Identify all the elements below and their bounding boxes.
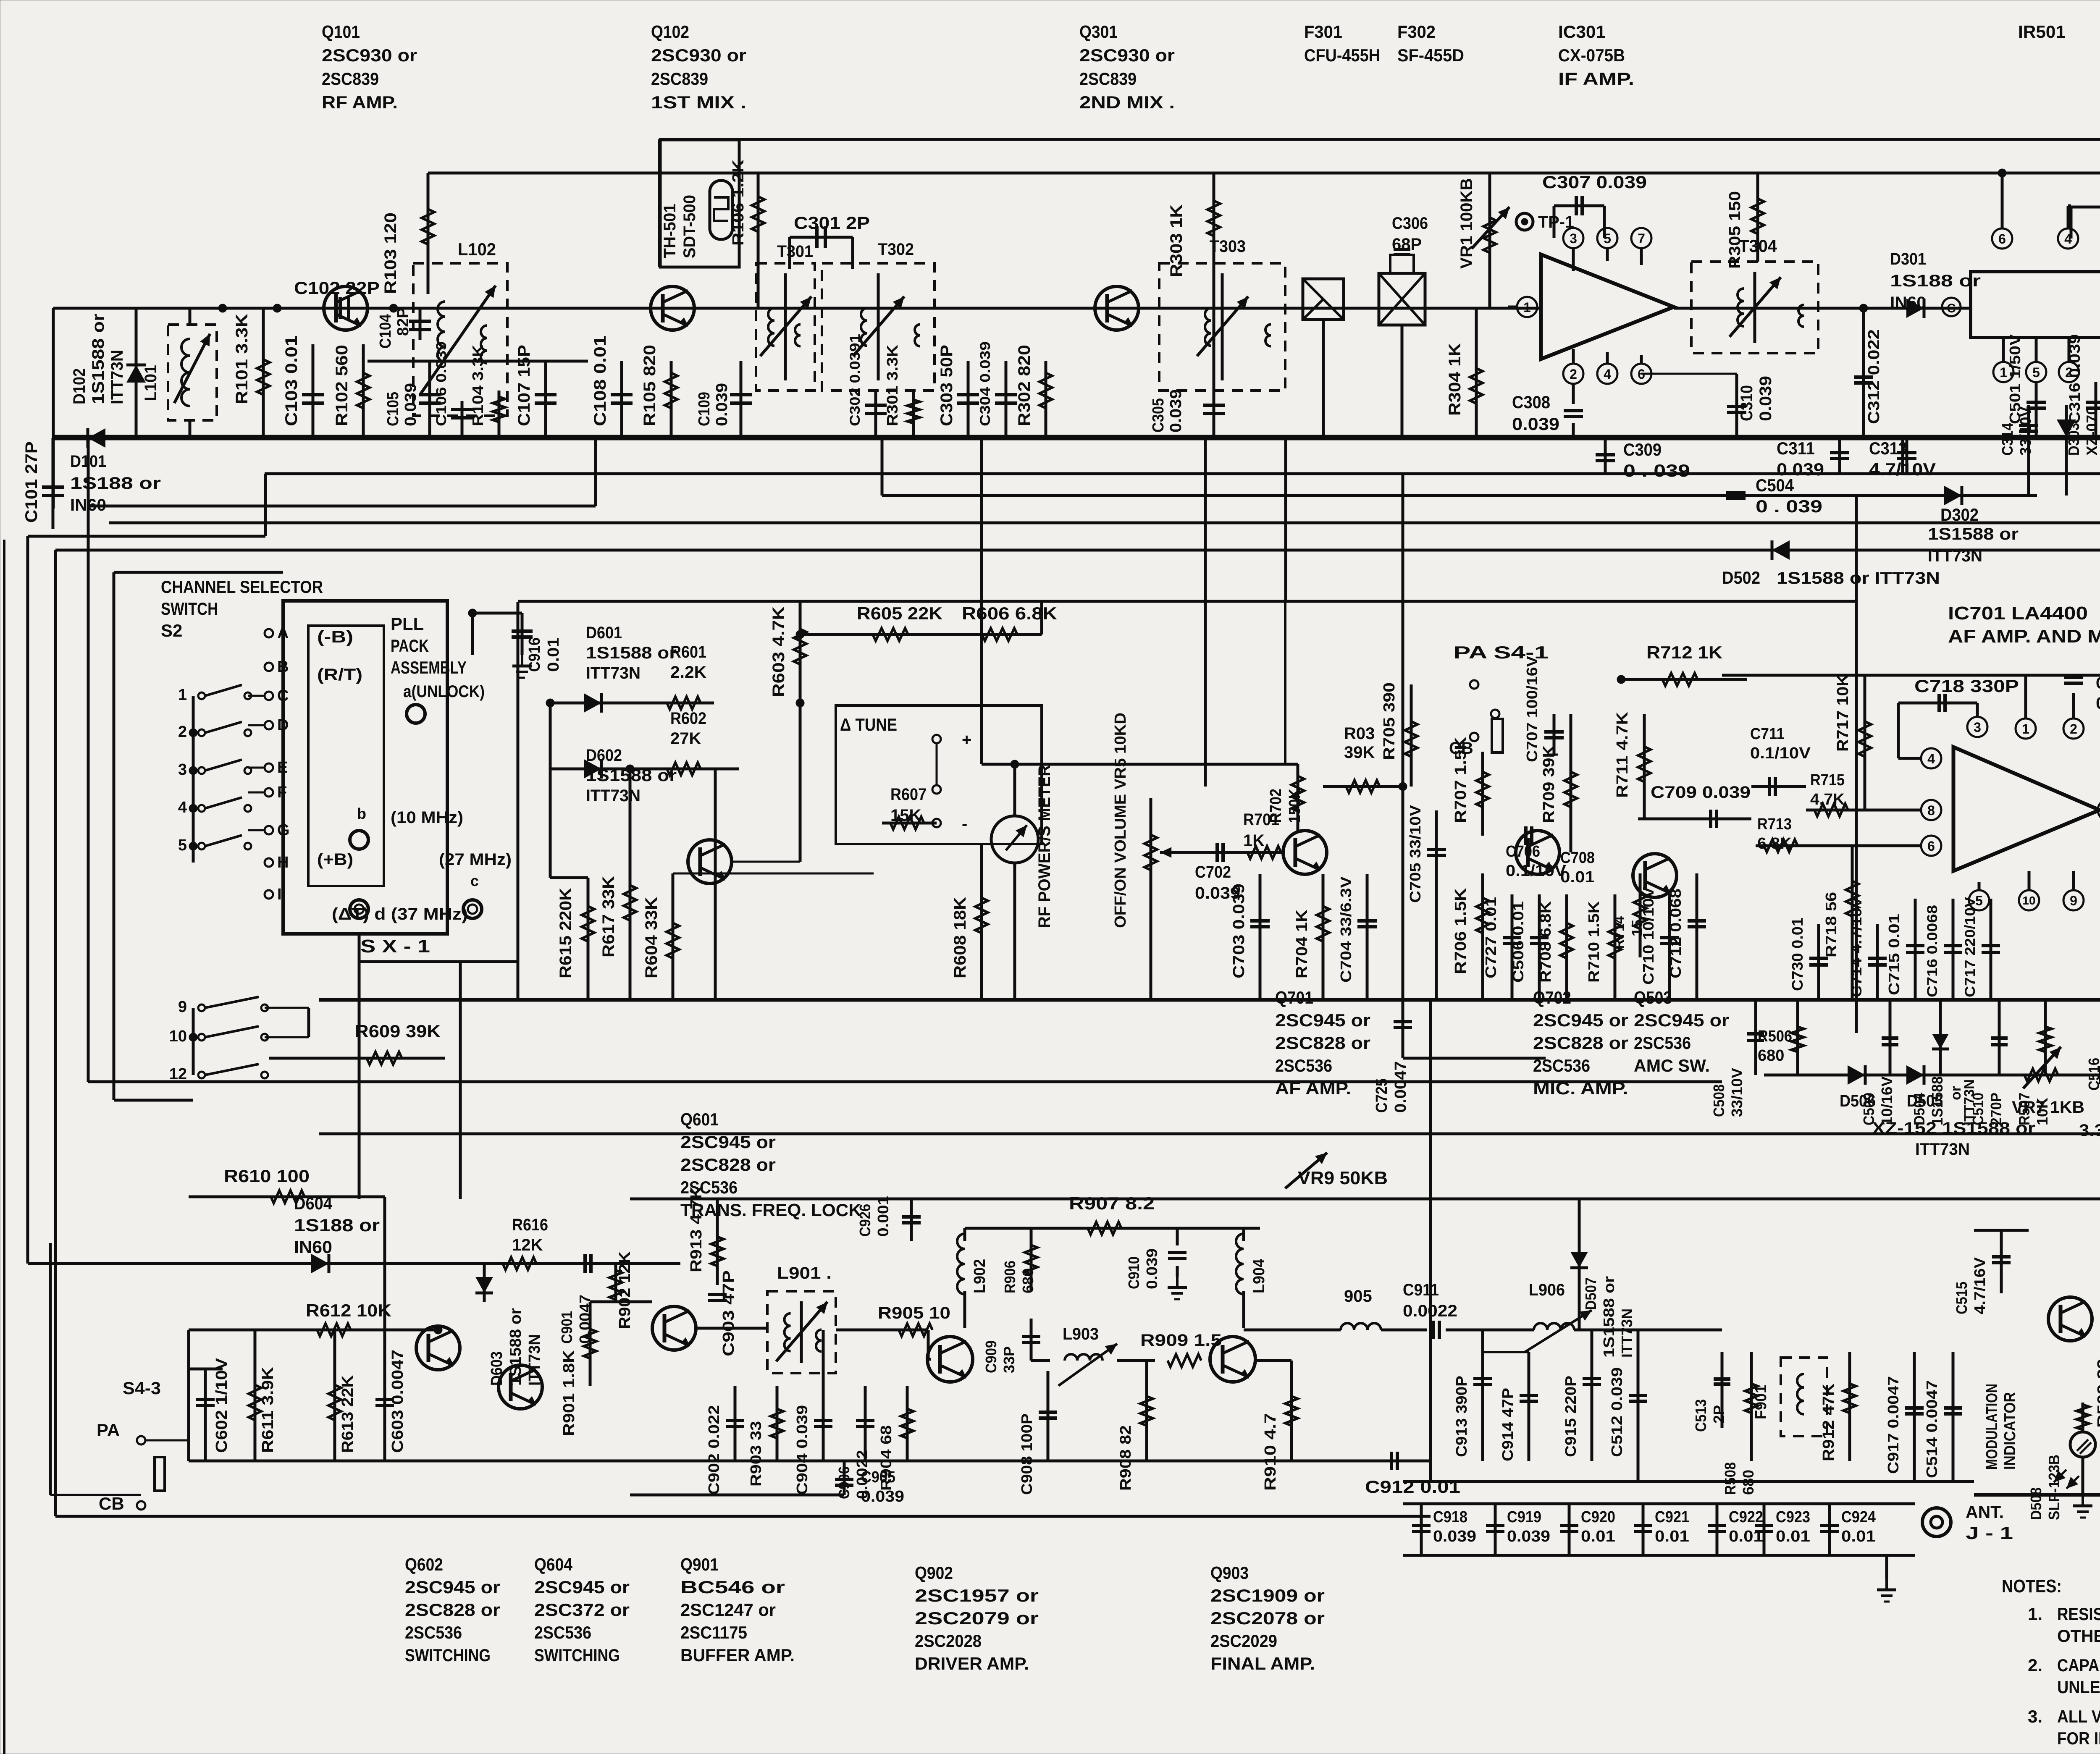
- selector arms: [178, 685, 251, 854]
- svg-text:C104: C104: [377, 314, 394, 349]
- svg-text:4: 4: [178, 799, 187, 816]
- svg-text:C902 0.022: C902 0.022: [705, 1405, 722, 1495]
- svg-text:C905: C905: [861, 1468, 895, 1486]
- resistor R101: [233, 308, 270, 438]
- label unlock: [403, 682, 485, 723]
- svg-text:F301: F301: [1304, 22, 1342, 42]
- svg-text:(+B): (+B): [317, 850, 353, 869]
- label channel selector: [161, 577, 323, 640]
- diode D509: [2099, 1233, 2100, 1314]
- svg-text:FOR IMPROVEMENT WITHOUT NOTICE: FOR IMPROVEMENT WITHOUT NOTICE.: [2057, 1728, 2100, 1748]
- svg-text:D301: D301: [1890, 250, 1926, 268]
- svg-text:PA: PA: [97, 1420, 120, 1440]
- wire mid verticals: [882, 438, 1903, 1481]
- svg-text:4: 4: [1604, 367, 1611, 382]
- capacitor C720: [2098, 717, 2100, 815]
- resistor R303: [1167, 173, 1220, 391]
- svg-text:RESISTANCE VALUES ARE SHOWN IN: RESISTANCE VALUES ARE SHOWN IN OHMS UNLE…: [2057, 1604, 2100, 1624]
- svg-text:R101 3.3K: R101 3.3K: [233, 314, 251, 404]
- wire left edge down: [52, 308, 55, 509]
- capacitor C307: [1542, 172, 1647, 238]
- svg-text:CHANNEL SELECTOR: CHANNEL SELECTOR: [161, 577, 323, 597]
- note 3: [2028, 1707, 2100, 1748]
- svg-text:2SC828 or: 2SC828 or: [1275, 1033, 1370, 1053]
- capacitor C714: [1849, 897, 1887, 1000]
- svg-text:BC546 or: BC546 or: [680, 1577, 785, 1597]
- svg-text:OFF/ON VOLUME VR5 10KD: OFF/ON VOLUME VR5 10KD: [1112, 713, 1129, 928]
- svg-text:T302: T302: [878, 240, 914, 259]
- resistor R615: [550, 878, 594, 1000]
- svg-text:R909 1.5: R909 1.5: [1140, 1331, 1222, 1350]
- wire supply line2: [428, 172, 2100, 175]
- capacitor C515: [1953, 1230, 2029, 1314]
- svg-text:R717 10K: R717 10K: [1834, 674, 1852, 752]
- resistor R509: [2076, 1359, 2100, 1432]
- wire left v1: [28, 474, 265, 1264]
- svg-text:0.01: 0.01: [1841, 1528, 1876, 1545]
- diode D506: [1840, 1065, 1876, 1110]
- svg-text:2: 2: [178, 723, 187, 741]
- resistor R103: [381, 209, 434, 294]
- svg-text:2SC536: 2SC536: [1275, 1056, 1332, 1075]
- svg-text:L904: L904: [1250, 1259, 1268, 1293]
- svg-text:C509: C509: [1860, 1093, 1877, 1125]
- svg-text:R302 820: R302 820: [1015, 345, 1034, 426]
- pin 1 ic701: [2016, 675, 2036, 739]
- svg-text:C709 0.039: C709 0.039: [1651, 783, 1751, 802]
- diode D101: [70, 428, 161, 514]
- svg-text:R707 1.5K: R707 1.5K: [1452, 737, 1470, 823]
- svg-text:82P: 82P: [394, 307, 412, 336]
- label Q701 block: [1275, 988, 1370, 1098]
- svg-text:D303: D303: [2065, 423, 2082, 456]
- resistor R607: [882, 785, 937, 829]
- wire C912 row: [1403, 1480, 1974, 1483]
- svg-text:R602: R602: [670, 709, 706, 728]
- transformer T303: [1159, 237, 1285, 391]
- svg-text:T301: T301: [777, 242, 813, 261]
- svg-text:R702: R702: [1267, 789, 1285, 823]
- svg-text:C303 50P: C303 50P: [937, 345, 956, 426]
- label Q902 block: [915, 1563, 1039, 1673]
- svg-text:1S1588 or: 1S1588 or: [1928, 525, 2019, 543]
- svg-text:C710 10/10V: C710 10/10V: [1640, 887, 1657, 985]
- capacitor C719: [2064, 674, 2100, 713]
- resistor R901: [560, 1302, 652, 1436]
- svg-text:C924: C924: [1841, 1508, 1876, 1526]
- svg-text:R613 22K: R613 22K: [339, 1375, 357, 1453]
- diode D504: [1911, 1000, 1949, 1125]
- svg-text:0.039: 0.039: [713, 383, 731, 426]
- svg-text:4: 4: [1927, 751, 1935, 766]
- svg-text:R509 82: R509 82: [2095, 1359, 2100, 1428]
- capacitor C702: [1195, 843, 1243, 902]
- label 10MHz: [350, 805, 463, 849]
- svg-text:L101: L101: [142, 365, 160, 401]
- svg-text:C301 2P: C301 2P: [794, 213, 870, 233]
- svg-text:2SC536: 2SC536: [534, 1623, 591, 1642]
- transistor Q301 (2nd mix): [1095, 286, 1139, 330]
- wire q601 area: [732, 703, 800, 862]
- svg-text:C309: C309: [1623, 440, 1662, 459]
- op-amp IC301 triangle: [1508, 254, 1674, 359]
- svg-text:BUFFER AMP.: BUFFER AMP.: [680, 1645, 795, 1665]
- svg-text:C903 47P: C903 47P: [720, 1270, 738, 1356]
- resistor R301: [884, 345, 920, 438]
- capacitor C705: [1407, 805, 1446, 1000]
- svg-text:L903: L903: [1063, 1325, 1099, 1343]
- capacitor C304: [977, 341, 1017, 438]
- wire line 1211: [88, 438, 596, 506]
- wire tx r610: [189, 1197, 385, 1330]
- svg-text:2SC945 or: 2SC945 or: [405, 1577, 500, 1597]
- wire bottom edge: [55, 1515, 1431, 1518]
- capacitor C909: [982, 1319, 1040, 1373]
- svg-text:C904 0.039: C904 0.039: [793, 1405, 811, 1495]
- svg-text:TH-501: TH-501: [661, 204, 679, 258]
- svg-text:IN60: IN60: [294, 1237, 332, 1257]
- svg-text:5: 5: [1604, 231, 1611, 246]
- pin 2 det: [2059, 338, 2079, 382]
- svg-text:(10 MHz): (10 MHz): [391, 808, 463, 827]
- capacitor C502: [2071, 175, 2100, 265]
- capacitor C302: [847, 334, 887, 438]
- resistor R612: [189, 1300, 438, 1461]
- resistor R713: [1756, 815, 1898, 852]
- resistor R905: [878, 1304, 950, 1336]
- resistor R708: [1537, 894, 1573, 1000]
- svg-text:R607: R607: [890, 785, 927, 804]
- svg-text:2ND MIX .: 2ND MIX .: [1079, 92, 1175, 112]
- pin 5: [1597, 228, 1617, 261]
- capacitor C105: [384, 361, 441, 438]
- inductor L903: [1031, 1325, 1155, 1386]
- wire left v2: [54, 550, 57, 1516]
- svg-text:VR9 50KB: VR9 50KB: [1298, 1168, 1388, 1188]
- label D604: [294, 1193, 380, 1257]
- capacitor C730: [1789, 918, 1828, 1000]
- capacitor C725: [1373, 1000, 1546, 1113]
- capacitor C715: [1885, 899, 1924, 1000]
- potentiometer VR1: [1457, 173, 1509, 308]
- capacitor C506: [1509, 894, 1549, 1000]
- capacitor C706: [1506, 826, 1567, 880]
- svg-text:IN60: IN60: [1890, 294, 1926, 312]
- svg-text:10/16V: 10/16V: [1878, 1076, 1895, 1125]
- capacitor C602: [189, 1358, 231, 1461]
- svg-text:R610 100: R610 100: [224, 1166, 310, 1186]
- pin 6 det: [1992, 169, 2012, 249]
- capacitor C913: [1453, 1330, 1492, 1461]
- svg-text:0.039: 0.039: [1167, 389, 1185, 433]
- capacitor C509: [1860, 1000, 1898, 1125]
- diode D604: [311, 1254, 329, 1273]
- svg-text:C908 100P: C908 100P: [1018, 1413, 1035, 1495]
- svg-text:C718 330P: C718 330P: [1914, 676, 2019, 696]
- capacitor C704: [1337, 874, 1377, 1000]
- svg-text:B: B: [277, 658, 289, 676]
- label RF POWER/S METER: [1035, 765, 1054, 928]
- potentiometer VR9: [1285, 1153, 1388, 1188]
- scan edge line: [3, 540, 5, 1754]
- wire pll verticals: [359, 602, 518, 1199]
- resistor R909: [1140, 1331, 1222, 1367]
- svg-text:L901 .: L901 .: [777, 1264, 832, 1282]
- transistor Q701 (AF amp): [1283, 831, 1327, 874]
- svg-text:Q901: Q901: [680, 1555, 719, 1574]
- svg-text:0.0022: 0.0022: [1403, 1302, 1457, 1320]
- svg-text:C105: C105: [384, 392, 402, 426]
- svg-text:ITT73N: ITT73N: [1915, 1140, 1970, 1159]
- pin 4: [1597, 352, 1617, 384]
- resistor R707: [1452, 737, 1489, 836]
- capacitor C922: [1708, 1504, 1763, 1555]
- label Q702 block: [1533, 988, 1628, 1098]
- meter M1: [991, 764, 1038, 1000]
- transistor Q503 (AMC sw): [1633, 854, 1677, 897]
- transistor Q602 (switching): [416, 1326, 460, 1370]
- svg-text:2.2K: 2.2K: [670, 663, 706, 682]
- capacitor C709: [1638, 783, 1751, 828]
- svg-text:C719: C719: [2096, 674, 2100, 692]
- svg-text:L102: L102: [458, 239, 496, 259]
- svg-text:C506 0.01: C506 0.01: [1509, 901, 1527, 983]
- svg-text:Q701: Q701: [1275, 988, 1313, 1007]
- capacitor C516: [2085, 1025, 2100, 1091]
- svg-text:2: 2: [1570, 367, 1577, 382]
- svg-text:C603 0.0047: C603 0.0047: [389, 1350, 407, 1453]
- svg-text:0.01: 0.01: [1655, 1528, 1689, 1545]
- potentiometer VR5: [1144, 798, 1205, 1000]
- resistor R613: [328, 1330, 357, 1461]
- label SX-1: [360, 936, 430, 957]
- svg-text:R912 47K: R912 47K: [1820, 1383, 1837, 1461]
- svg-text:R303 1K: R303 1K: [1167, 205, 1186, 277]
- svg-text:C725: C725: [1373, 1078, 1391, 1113]
- svg-text:150K: 150K: [1286, 788, 1304, 823]
- svg-text:4.7/16V: 4.7/16V: [1971, 1257, 1988, 1314]
- pin 3 ic701: [1967, 703, 1987, 737]
- svg-text:2SC839: 2SC839: [651, 69, 708, 89]
- wire vr9 bus: [630, 1198, 2100, 1201]
- wire mid bus: [319, 998, 2100, 1002]
- diode D505: [1906, 1065, 1943, 1110]
- svg-text:0.039: 0.039: [402, 383, 420, 426]
- svg-text:C706: C706: [1506, 843, 1540, 860]
- svg-text:2SC945 or: 2SC945 or: [1533, 1010, 1628, 1030]
- svg-text:10K: 10K: [2034, 1098, 2051, 1125]
- capacitor C501: [2006, 334, 2046, 438]
- svg-text:C919: C919: [1507, 1508, 1541, 1526]
- antenna jack J-1: [1877, 1502, 2013, 1602]
- capacitor C710: [1640, 887, 1679, 1000]
- tune contacts: [932, 731, 971, 833]
- svg-text:1: 1: [1523, 300, 1531, 315]
- svg-text:Q604: Q604: [534, 1555, 573, 1574]
- label PLL: [391, 614, 467, 677]
- svg-text:C306: C306: [1392, 214, 1428, 233]
- svg-text:NOTES:: NOTES:: [2002, 1576, 2062, 1597]
- selector group2: [169, 997, 268, 1083]
- switch S4-3: [97, 1378, 165, 1513]
- svg-text:2SC536: 2SC536: [405, 1623, 462, 1642]
- svg-text:C915 220P: C915 220P: [1562, 1376, 1579, 1457]
- resistor R608: [951, 844, 988, 1000]
- svg-text:L902: L902: [971, 1259, 989, 1293]
- svg-text:1S188 or: 1S188 or: [1890, 272, 1981, 290]
- potentiometer VR7: [2012, 1047, 2084, 1117]
- capacitor C711: [1750, 725, 1811, 796]
- svg-text:IN60: IN60: [70, 496, 106, 514]
- svg-text:C912 0.01: C912 0.01: [1365, 1477, 1460, 1497]
- svg-text:Q301: Q301: [1079, 22, 1118, 42]
- label Q503 block: [1634, 988, 1729, 1075]
- capacitor C917: [1885, 1352, 1924, 1481]
- wire mod row: [1974, 1493, 2100, 1497]
- svg-text:C103 0.01: C103 0.01: [282, 336, 301, 426]
- svg-text:R605 22K: R605 22K: [857, 603, 942, 623]
- label OFF/ON VOLUME VR5: [1112, 713, 1129, 928]
- svg-text:R715: R715: [1810, 771, 1845, 789]
- resistor R603: [769, 601, 806, 707]
- op-amp IC701 triangle: [1953, 747, 2100, 871]
- svg-text:3.: 3.: [2028, 1707, 2042, 1726]
- svg-text:IR501: IR501: [2018, 22, 2066, 42]
- wire left v3: [87, 506, 90, 1082]
- svg-text:S4-3: S4-3: [123, 1378, 161, 1398]
- svg-text:R704 1K: R704 1K: [1293, 909, 1311, 978]
- svg-text:XZ-152 1S1588 or: XZ-152 1S1588 or: [1872, 1119, 2035, 1138]
- svg-text:C510: C510: [1969, 1093, 1987, 1125]
- label IR501: [2018, 22, 2066, 42]
- svg-text:C514 0.0047: C514 0.0047: [1923, 1380, 1940, 1478]
- resistor R507: [2016, 1000, 2052, 1125]
- svg-text:DRIVER AMP.: DRIVER AMP.: [915, 1654, 1029, 1673]
- pin 1 det: [1993, 338, 2013, 382]
- transformer T301: [756, 242, 815, 391]
- svg-text:C312 0.022: C312 0.022: [1865, 329, 1883, 424]
- svg-text:C911: C911: [1403, 1281, 1439, 1299]
- svg-text:Q903: Q903: [1210, 1563, 1249, 1583]
- svg-text:R712 1K: R712 1K: [1646, 642, 1722, 662]
- svg-text:C703 0.039: C703 0.039: [1230, 884, 1248, 978]
- resistor R606: [945, 601, 1057, 641]
- resistor R304: [1446, 308, 1483, 438]
- transistor Q902 (driver): [927, 1337, 973, 1382]
- svg-text:TRANS. FREQ. LOCK: TRANS. FREQ. LOCK: [680, 1200, 861, 1220]
- svg-text:680: 680: [1758, 1047, 1784, 1064]
- capacitor C510: [1969, 1000, 2008, 1125]
- svg-text:+: +: [962, 731, 971, 749]
- svg-text:1K: 1K: [1243, 831, 1265, 850]
- capacitor C109: [696, 361, 752, 438]
- resistor R506: [1758, 1000, 1804, 1075]
- note 2: [2028, 1655, 2100, 1697]
- svg-text:C107 15P: C107 15P: [515, 345, 533, 426]
- capacitor C707: [1523, 656, 1564, 762]
- svg-text:C314: C314: [1999, 423, 2016, 456]
- svg-text:R507: R507: [2016, 1093, 2033, 1125]
- resistor R702: [1267, 764, 1304, 831]
- resistor R605: [796, 603, 945, 641]
- resistor R904: [877, 1386, 913, 1491]
- capacitor C514: [1923, 1352, 1962, 1481]
- svg-text:D601: D601: [586, 624, 622, 642]
- svg-text:T303: T303: [1210, 237, 1246, 256]
- svg-text:4.7K: 4.7K: [1810, 791, 1845, 808]
- svg-text:Δ TUNE: Δ TUNE: [840, 715, 897, 734]
- svg-text:4.7/10V: 4.7/10V: [1869, 459, 1936, 479]
- svg-text:R705 390: R705 390: [1381, 682, 1398, 760]
- svg-text:SWITCH: SWITCH: [161, 599, 218, 619]
- capacitor C306: [1390, 214, 1428, 273]
- svg-text:C512 0.039: C512 0.039: [1608, 1367, 1625, 1457]
- svg-text:0.039: 0.039: [1507, 1528, 1550, 1545]
- svg-text:R301 3.3K: R301 3.3K: [884, 345, 901, 426]
- svg-text:IC301: IC301: [1558, 22, 1606, 42]
- svg-text:C508: C508: [1710, 1084, 1727, 1117]
- diode D602: [550, 703, 677, 878]
- svg-text:C920: C920: [1581, 1508, 1615, 1526]
- wire line C504 row: [882, 494, 2037, 497]
- wire long mid bus: [1722, 674, 2100, 677]
- resistor R910: [1262, 1361, 1298, 1491]
- inductor L906: [1525, 1281, 1592, 1352]
- capacitor C901: [558, 1254, 593, 1344]
- svg-text:2SC828 or: 2SC828 or: [1533, 1033, 1628, 1053]
- svg-text:IC701 LA4400: IC701 LA4400: [1948, 603, 2088, 624]
- svg-text:CAPACITANCE VALUES ARE SHOWN I: CAPACITANCE VALUES ARE SHOWN IN MICROFAR…: [2057, 1655, 2100, 1675]
- resistor R710: [1585, 894, 1621, 1000]
- inductor L901: [767, 1264, 836, 1373]
- capacitor C305: [1150, 389, 1225, 438]
- resistor R104: [469, 345, 505, 438]
- capacitor C504: [1726, 475, 1822, 516]
- svg-text:0.01: 0.01: [545, 637, 562, 672]
- capacitor C915: [1562, 1330, 1601, 1461]
- svg-text:R714: R714: [1610, 916, 1627, 949]
- svg-text:2SC2079 or: 2SC2079 or: [915, 1608, 1039, 1628]
- wire bottom bus: [189, 1460, 1431, 1463]
- svg-text:CX-075B: CX-075B: [1558, 45, 1625, 65]
- svg-text:F302: F302: [1397, 22, 1436, 42]
- svg-text:D302: D302: [1940, 505, 1979, 524]
- svg-text:R617 33K: R617 33K: [599, 876, 618, 957]
- capacitor C303: [937, 345, 979, 438]
- svg-text:(27 MHz): (27 MHz): [439, 850, 512, 869]
- svg-text:2P: 2P: [1710, 1405, 1727, 1424]
- capacitor C309: [1596, 438, 1690, 480]
- IC detector box: [1971, 272, 2100, 338]
- svg-text:2SC839: 2SC839: [322, 69, 379, 89]
- svg-text:C109: C109: [696, 392, 713, 426]
- svg-text:C311: C311: [1777, 438, 1815, 458]
- svg-text:2: 2: [2070, 721, 2077, 737]
- transistor Q702 (mic amp): [1516, 831, 1559, 874]
- svg-text:2SC2029: 2SC2029: [1210, 1631, 1277, 1651]
- svg-text:3: 3: [1570, 231, 1577, 246]
- resistor R302: [1015, 345, 1052, 438]
- svg-text:MODULATION: MODULATION: [1983, 1384, 2001, 1470]
- svg-text:R616: R616: [512, 1216, 548, 1234]
- svg-text:C702: C702: [1195, 863, 1231, 881]
- resistor R913: [688, 1186, 724, 1285]
- resistor R601: [643, 643, 714, 709]
- svg-text:D602: D602: [586, 746, 622, 765]
- svg-text:R104 3.3K: R104 3.3K: [469, 345, 486, 426]
- diode D302: [1928, 486, 2019, 565]
- diode D301: [1818, 250, 1981, 318]
